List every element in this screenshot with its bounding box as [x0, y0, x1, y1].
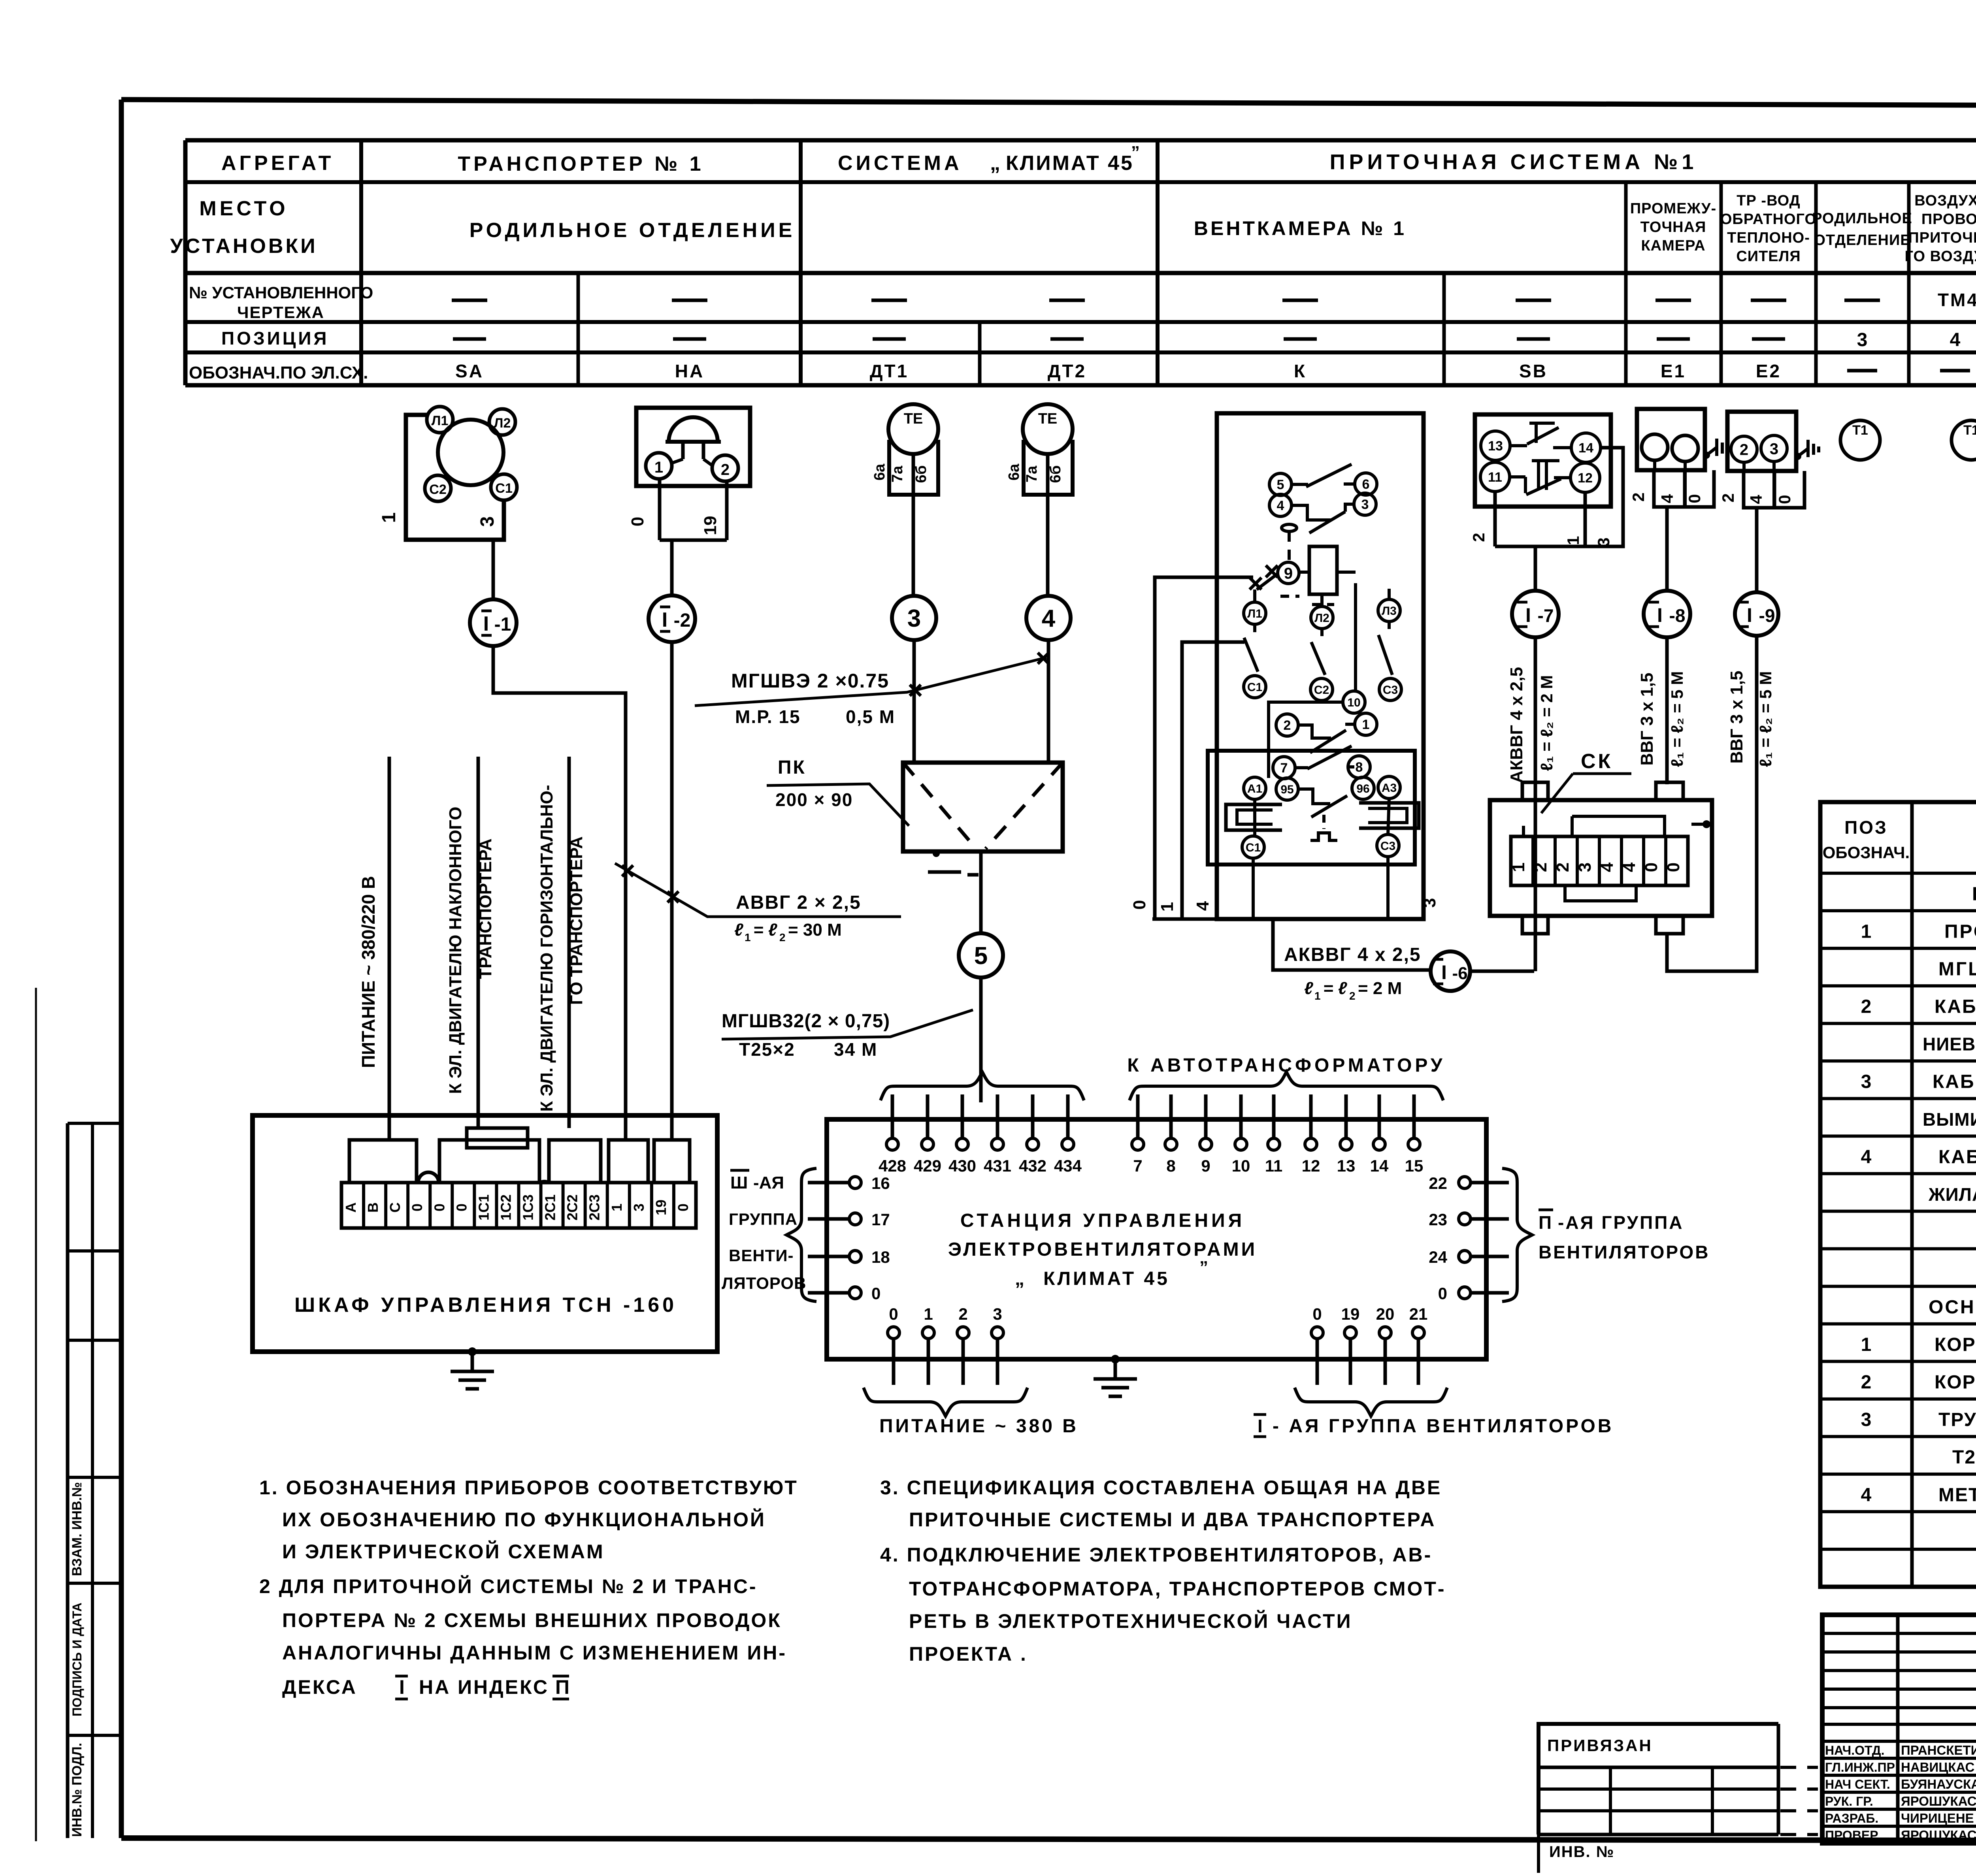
cabinet upper connector boxes	[349, 1128, 690, 1183]
svg-text:-9: -9	[1759, 605, 1775, 626]
svg-text:-АЯ: -АЯ	[753, 1173, 784, 1192]
svg-text:ПИТАНИЕ ~ 380/220 В: ПИТАНИЕ ~ 380/220 В	[358, 876, 379, 1068]
svg-text:2: 2	[1349, 990, 1356, 1002]
svg-text:ПОРТЕРА № 2 СХЕМЫ ВНЕШН: ПОРТЕРА № 2 СХЕМЫ ВНЕШНИХ ПРОВОДОК	[282, 1609, 782, 1631]
svg-text:0: 0	[889, 1305, 898, 1323]
wire И-1 to cabinet	[493, 646, 626, 1140]
svg-text:3: 3	[1420, 898, 1439, 908]
К contact 2-1	[1276, 713, 1377, 753]
pull box ПК 200x90	[903, 763, 1063, 875]
station left terminals 16 17 18 0	[808, 1174, 890, 1303]
svg-text:КЛИМАТ 45: КЛИМАТ 45	[1006, 152, 1134, 175]
brace and label П-АЯ ГРУППА ВЕНТИЛЯТОРОВ	[1502, 1168, 1710, 1302]
svg-text:0: 0	[453, 1204, 469, 1211]
svg-text:0: 0	[675, 1204, 691, 1211]
svg-text:РЕТЬ В ЭЛЕКТРОТЕХНИЧЕСКОЙ: РЕТЬ В ЭЛЕКТРОТЕХНИЧЕСКОЙ ЧАСТИ	[909, 1610, 1352, 1632]
svg-text:3. СПЕЦИФИКАЦИЯ СОСТАВЛЕНА: 3. СПЕЦИФИКАЦИЯ СОСТАВЛЕНА ОБЩАЯ НА ДВЕ	[880, 1477, 1442, 1499]
note 4	[880, 1544, 1446, 1665]
cabinet ground	[451, 1347, 494, 1389]
К contact 7-8	[1273, 746, 1370, 779]
wire marker 4	[1026, 596, 1071, 763]
svg-text:ПРОМЕЖУ-: ПРОМЕЖУ-	[1630, 200, 1716, 217]
svg-text:Л1: Л1	[1247, 607, 1262, 620]
svg-text:2: 2	[1629, 492, 1648, 501]
SA motor circle	[438, 420, 503, 485]
svg-text:Т25×2: Т25×2	[739, 1039, 795, 1060]
svg-text:ТОТРАНСФОРМАТОРА, ТРАНСПОРТ: ТОТРАНСФОРМАТОРА, ТРАНСПОРТЕРОВ СМОТ-	[909, 1578, 1446, 1600]
svg-text:434: 434	[1054, 1156, 1082, 1175]
svg-text:12: 12	[1578, 471, 1593, 486]
svg-text:3: 3	[631, 1204, 647, 1211]
wire Е1 to И-8	[1665, 507, 1669, 591]
svg-text:18: 18	[871, 1248, 890, 1266]
SA wire label 1	[379, 512, 400, 523]
svg-text:= ℓ: = ℓ	[753, 920, 777, 940]
К contact crosses	[1250, 565, 1278, 590]
svg-text:3: 3	[1361, 497, 1369, 512]
svg-text:2: 2	[1861, 996, 1872, 1017]
svg-text:НА ИНДЕКС: НА ИНДЕКС	[419, 1676, 549, 1698]
station top terminals 7..15	[1132, 1094, 1423, 1175]
svg-text:7а: 7а	[889, 465, 906, 482]
svg-text:19: 19	[1341, 1305, 1360, 1323]
svg-text:3: 3	[1770, 440, 1778, 458]
К contact 5-6	[1269, 464, 1377, 495]
svg-text:0: 0	[1438, 1284, 1447, 1303]
svg-text:ПРИТОЧНАЯ СИСТЕМА №1: ПРИТОЧНАЯ СИСТЕМА №1	[1330, 150, 1698, 174]
svg-text:7: 7	[1280, 761, 1288, 776]
svg-text:34 М: 34 М	[834, 1039, 877, 1060]
cable ВВГ 3x1,5 5М vertical (И-9)	[1667, 636, 1775, 971]
svg-text:0: 0	[1664, 863, 1683, 872]
svg-text:№ УСТАНОВЛЕННОГО: № УСТАНОВЛЕННОГО	[189, 283, 373, 302]
svg-text:1С1: 1С1	[475, 1194, 492, 1221]
station СТАНЦИЯ УПРАВЛЕНИЯ box	[827, 1119, 1486, 1359]
station bottom terminals 0 1 2 3 (supply)	[888, 1305, 1003, 1385]
svg-text:Ш: Ш	[730, 1173, 748, 1192]
svg-text:1: 1	[1158, 902, 1177, 912]
svg-text:РАЗРАБ.: РАЗРАБ.	[1825, 1811, 1878, 1825]
svg-text:ℓ: ℓ	[1304, 979, 1313, 998]
svg-text:ВЗАМ. ИНВ.№: ВЗАМ. ИНВ.№	[70, 1482, 85, 1576]
svg-text:ГО ВОЗДУХА: ГО ВОЗДУХА	[1905, 248, 1976, 265]
svg-text:3: 3	[907, 605, 921, 632]
svg-text:ИХ ОБОЗНАЧЕНИЮ ПО ФУНКЦ: ИХ ОБОЗНАЧЕНИЮ ПО ФУНКЦИОНАЛЬНОЙ	[282, 1508, 766, 1531]
svg-text:23: 23	[1429, 1210, 1447, 1229]
svg-text:19: 19	[701, 516, 720, 535]
svg-text:РОДИЛЬНОЕ ОТДЕЛЕНИЕ: РОДИЛЬНОЕ ОТДЕЛЕНИЕ	[469, 219, 796, 242]
К wire label 3	[1420, 898, 1439, 908]
svg-text:2: 2	[1719, 493, 1737, 502]
svg-text:С2: С2	[1314, 684, 1329, 697]
svg-text:ВЕНТИЛЯТОРОВ: ВЕНТИЛЯТОРОВ	[1539, 1242, 1710, 1262]
label ПК 200x90	[767, 757, 909, 826]
station bottom terminals 0 19 20 21	[1311, 1305, 1427, 1385]
svg-text:Е1: Е1	[1661, 361, 1686, 381]
specification table grid	[1820, 802, 1976, 1587]
svg-text:ВЕНТИ-: ВЕНТИ-	[729, 1246, 794, 1265]
СК label	[1541, 750, 1631, 813]
svg-text:432: 432	[1019, 1156, 1046, 1175]
wire marker 5	[959, 933, 1003, 978]
svg-text:ЧИРИЦЕНЕ: ЧИРИЦЕНЕ	[1901, 1811, 1974, 1825]
SB contact 13-14	[1481, 423, 1601, 462]
svg-text:0: 0	[628, 517, 647, 526]
svg-text:3: 3	[1861, 1409, 1872, 1430]
svg-text:2: 2	[721, 461, 730, 478]
СК mounting tabs	[1522, 782, 1683, 934]
svg-text:ТРАНСПОРТЕРА: ТРАНСПОРТЕРА	[476, 838, 495, 979]
marker И-9	[1735, 592, 1778, 636]
svg-text:А: А	[343, 1202, 359, 1213]
brace К АВТОТРАНСФОРМАТОРУ	[1127, 1055, 1445, 1100]
station ground	[1094, 1355, 1137, 1396]
bind block ПРИВЯЗАН	[1539, 1724, 1818, 1873]
svg-text:МГШВЭ 2 ×0.75: МГШВЭ 2 ×0.75	[731, 670, 889, 692]
svg-text:А1: А1	[1247, 782, 1262, 795]
svg-text:СТАНЦИЯ УПРАВЛЕНИЯ: СТАНЦИЯ УПРАВЛЕНИЯ	[960, 1210, 1245, 1231]
svg-text:ОТДЕЛЕНИЕ: ОТДЕЛЕНИЕ	[1814, 232, 1910, 249]
svg-text:11: 11	[1488, 470, 1502, 485]
svg-text:-1: -1	[494, 614, 511, 635]
svg-text:3: 3	[477, 516, 498, 527]
device НА (bell) box	[636, 408, 750, 486]
СК inner offset plates	[1523, 816, 1710, 901]
К heater right	[1359, 803, 1419, 828]
svg-text:= ℓ: = ℓ	[1323, 979, 1347, 998]
svg-text:УСТАНОВКИ: УСТАНОВКИ	[170, 235, 317, 258]
svg-text:К ЭЛ. ДВИГАТЕЛЮ ГОРИЗОНТАЛЬНО: К ЭЛ. ДВИГАТЕЛЮ ГОРИЗОНТАЛЬНО-	[537, 785, 556, 1111]
svg-text:2: 2	[1469, 533, 1488, 542]
marker И-1	[470, 599, 517, 646]
svg-text:0: 0	[1130, 900, 1149, 910]
wire И-6 to СК	[1470, 970, 1534, 973]
К switch arms to С1 С2 С3	[1244, 624, 1266, 698]
sensor Т1 #2	[1951, 420, 1976, 460]
svg-text:С: С	[387, 1202, 403, 1213]
svg-text:С1: С1	[495, 481, 512, 496]
svg-text:ГРУППА: ГРУППА	[729, 1210, 798, 1228]
svg-text:I: I	[399, 1676, 405, 1698]
svg-text:428: 428	[879, 1156, 906, 1175]
svg-text:СИСТЕМА: СИСТЕМА	[838, 152, 962, 175]
svg-text:1. ОБОЗНАЧЕНИЯ ПРИБОРОВ СО: 1. ОБОЗНАЧЕНИЯ ПРИБОРОВ СООТВЕТСТВУЮТ	[259, 1477, 798, 1499]
svg-text:К ЭЛ. ДВИГАТЕЛЮ НАКЛОННОГО: К ЭЛ. ДВИГАТЕЛЮ НАКЛОННОГО	[446, 806, 465, 1094]
svg-text:”: ”	[1131, 143, 1140, 162]
SA terminal Л1	[427, 407, 453, 433]
svg-text:ПК: ПК	[778, 757, 806, 778]
svg-text:- АЯ ГРУППА ВЕНТИЛЯТОРОВ: - АЯ ГРУППА ВЕНТИЛЯТОРОВ	[1273, 1416, 1614, 1437]
svg-text:= 30 М: = 30 М	[788, 920, 842, 940]
svg-text:КАБЕЛЬ СИЛОВОЙ С АЛЮМИН: КАБЕЛЬ СИЛОВОЙ С АЛЮМИНИЕ-	[1933, 1071, 1976, 1092]
svg-text:0: 0	[1775, 495, 1794, 504]
СК terminal strip	[1509, 836, 1688, 885]
svg-text:4: 4	[1861, 1484, 1872, 1505]
К cable exit to И-6	[1273, 919, 1431, 970]
wire SA to И-1	[492, 540, 495, 599]
svg-text:П: П	[555, 1676, 569, 1698]
svg-text:4. ПОДКЛЮЧЕНИЕ ЭЛЕКТРОВЕН: 4. ПОДКЛЮЧЕНИЕ ЭЛЕКТРОВЕНТИЛЯТОРОВ, АВ-	[880, 1544, 1432, 1566]
svg-text:4: 4	[1747, 495, 1765, 504]
svg-text:КАБЕЛЬ КОНТРОЛЬНЫЙ С: КАБЕЛЬ КОНТРОЛЬНЫЙ С АЛЮМИ-	[1935, 996, 1976, 1017]
svg-text:ℓ: ℓ	[734, 920, 743, 940]
svg-text:I: I	[1657, 604, 1663, 626]
svg-text:I: I	[483, 612, 489, 635]
svg-text:ТРУБА СТАЛЬНАЯ ЭЛЕКТР: ТРУБА СТАЛЬНАЯ ЭЛЕКТРОСВАРНАЯ	[1938, 1409, 1976, 1430]
К contact 95-96 with reset	[1276, 777, 1374, 840]
left margin stamp strip	[68, 1123, 121, 1838]
sensor Т1 #1	[1840, 420, 1880, 460]
svg-text:ПРОВОД: ПРОВОД	[1921, 211, 1976, 228]
svg-text:5: 5	[974, 942, 988, 970]
svg-text:1: 1	[1861, 1334, 1872, 1355]
cable label АКВВГ 4х2,5 2М	[1284, 944, 1421, 1002]
svg-text:24: 24	[1429, 1248, 1447, 1266]
svg-text:С2: С2	[429, 482, 446, 497]
station right terminals 22 23 24 0	[1429, 1174, 1509, 1303]
svg-text:4: 4	[1042, 605, 1056, 632]
svg-text:Л1: Л1	[432, 413, 449, 428]
svg-text:ПРОВОД ЭКРАНИРОВАННЫЙ: ПРОВОД ЭКРАНИРОВАННЫЙ	[1944, 920, 1976, 942]
svg-text:0: 0	[871, 1284, 881, 1303]
note 3	[880, 1477, 1442, 1531]
svg-text:ЖИЛАМИ ВВГ 3 × 1,5: ЖИЛАМИ ВВГ 3 × 1,5 ГОСТ 16442-70	[1928, 1184, 1976, 1205]
svg-text:4: 4	[1620, 862, 1639, 872]
svg-text:-АЯ ГРУППА: -АЯ ГРУППА	[1558, 1212, 1684, 1233]
svg-text:429: 429	[914, 1156, 941, 1175]
location table texts	[170, 143, 1976, 382]
svg-text:БУЯНАУСКАС: БУЯНАУСКАС	[1901, 1777, 1976, 1791]
svg-text:3: 3	[1594, 537, 1613, 546]
svg-text:ДТ1: ДТ1	[870, 361, 909, 381]
svg-text:МЕТАЛЛОРУКАВ Р3- АЛ- Х: МЕТАЛЛОРУКАВ Р3- АЛ- Х Дь= 15 ММ	[1938, 1484, 1976, 1505]
sensor ТЕ2	[1006, 404, 1073, 596]
svg-text:„: „	[990, 152, 1000, 175]
station title	[948, 1210, 1257, 1289]
svg-text:ЭЛЕКТРОВЕНТИЛЯТОРАМИ: ЭЛЕКТРОВЕНТИЛЯТОРАМИ	[948, 1239, 1257, 1260]
svg-text:ГЛ.ИНЖ.ПР: ГЛ.ИНЖ.ПР	[1825, 1760, 1895, 1774]
svg-text:2: 2	[779, 931, 786, 944]
svg-text:SB: SB	[1519, 361, 1548, 381]
svg-text:95: 95	[1280, 783, 1293, 796]
svg-text:Л2: Л2	[1314, 612, 1329, 625]
svg-text:ЯРОШУКАС: ЯРОШУКАС	[1901, 1828, 1976, 1842]
svg-text:2С1: 2С1	[542, 1194, 558, 1221]
svg-text:ЧЕРТЕЖА: ЧЕРТЕЖА	[237, 303, 324, 322]
cabinet terminal strip	[341, 1183, 696, 1228]
svg-text:В: В	[365, 1202, 381, 1213]
svg-text:9: 9	[1201, 1156, 1210, 1175]
svg-text:Т25 × 2,0 ГОСТ 10704: Т25 × 2,0 ГОСТ 10704-76	[1952, 1447, 1976, 1468]
svg-text:0: 0	[409, 1204, 425, 1211]
svg-text:ТЕПЛОНО-: ТЕПЛОНО-	[1727, 230, 1810, 246]
svg-text:7: 7	[1133, 1156, 1142, 1175]
svg-text:ШКАФ УПРАВЛЕНИЯ ТСН -160: ШКАФ УПРАВЛЕНИЯ ТСН -160	[294, 1294, 677, 1317]
К contact 4-3	[1269, 493, 1376, 533]
cable АКВВГ 4x2,5 2М vertical	[1507, 637, 1556, 971]
svg-text:АКВВГ 4 х 2,5: АКВВГ 4 х 2,5	[1284, 944, 1421, 965]
note 1	[259, 1477, 798, 1563]
svg-text:0: 0	[1642, 863, 1661, 872]
spec rows cables	[1861, 883, 1976, 1205]
К thermal relay sub-box	[1208, 751, 1415, 865]
svg-text:ПРИТОЧНО-: ПРИТОЧНО-	[1908, 230, 1976, 246]
svg-text:3: 3	[993, 1305, 1002, 1323]
svg-text:1: 1	[745, 931, 751, 944]
svg-text:2: 2	[958, 1305, 967, 1323]
svg-text:МГШВ Э 2 × 0,75: МГШВ Э 2 × 0,75	[1938, 959, 1976, 980]
svg-text:4: 4	[1658, 494, 1676, 503]
device SA (packet switch) box	[406, 415, 504, 540]
marker И-2	[649, 595, 695, 642]
svg-text:2С2: 2С2	[564, 1194, 581, 1221]
brace ПИТАНИЕ ~380 В	[864, 1388, 1079, 1437]
svg-text:12: 12	[1302, 1156, 1320, 1175]
svg-text:Т1: Т1	[1852, 423, 1868, 438]
brace and riser to marker 5	[881, 1072, 1084, 1102]
svg-text:ВВГ 3 х 1,5: ВВГ 3 х 1,5	[1727, 671, 1746, 763]
svg-text:К АВТОТРАНСФОРМАТОРУ: К АВТОТРАНСФОРМАТОРУ	[1127, 1055, 1445, 1076]
cable label МГШВЭ 2x0.75 М.Р.15 0,5М	[695, 653, 1049, 727]
cable ВВГ 3x1,5 5М vertical (И-8)	[1637, 637, 1686, 784]
svg-text:ПРАНСКЕТИС: ПРАНСКЕТИС	[1901, 1743, 1976, 1757]
svg-text:1: 1	[1564, 536, 1582, 545]
svg-text:6б: 6б	[913, 465, 930, 483]
svg-text:9: 9	[1284, 565, 1293, 582]
svg-text:13: 13	[1337, 1156, 1356, 1175]
svg-text:96: 96	[1356, 782, 1369, 795]
cable label МГШВ32(2x0,75) Т25х2 34М	[722, 1010, 973, 1060]
svg-text:АНАЛОГИЧНЫ ДАННЫМ С ИЗМЕ: АНАЛОГИЧНЫ ДАННЫМ С ИЗМЕНЕНИЕМ ИН-	[282, 1642, 787, 1664]
wire marker 3	[892, 596, 936, 763]
svg-text:ТЕ: ТЕ	[904, 411, 923, 427]
svg-text:1: 1	[379, 512, 400, 523]
svg-text:6а: 6а	[871, 463, 888, 480]
svg-text:КЛИМАТ 45: КЛИМАТ 45	[1043, 1268, 1170, 1289]
svg-text:ИНВ. №: ИНВ. №	[1549, 1843, 1614, 1861]
svg-text:10: 10	[1232, 1156, 1250, 1175]
svg-text:1: 1	[1314, 990, 1321, 1002]
svg-text:СК: СК	[1581, 750, 1613, 773]
svg-text:1С3: 1С3	[520, 1194, 536, 1221]
svg-text:ПРОВЕР: ПРОВЕР	[1825, 1828, 1878, 1842]
НА wire label 0	[628, 517, 647, 526]
svg-text:I: I	[662, 608, 667, 631]
svg-text:СИТЕЛЯ: СИТЕЛЯ	[1736, 248, 1801, 265]
cabinet feeder wires with labels	[358, 757, 389, 1140]
НА bell dome	[666, 417, 721, 459]
svg-text:1: 1	[654, 459, 663, 476]
svg-text:РУК. ГР.: РУК. ГР.	[1825, 1794, 1873, 1808]
svg-text:ПОЗИЦИЯ: ПОЗИЦИЯ	[221, 328, 329, 348]
svg-text:ПОЗ: ПОЗ	[1844, 817, 1888, 838]
svg-text:Л2: Л2	[494, 416, 511, 431]
svg-text:ГО ТРАНСПОРТЕРА: ГО ТРАНСПОРТЕРА	[567, 836, 586, 1005]
svg-text:200 × 90: 200 × 90	[775, 789, 853, 810]
svg-text:А3: А3	[1382, 782, 1397, 795]
svg-text:4: 4	[1597, 862, 1617, 872]
svg-text:ОБРАТНОГО: ОБРАТНОГО	[1720, 211, 1817, 228]
К relay 9	[1278, 546, 1356, 605]
note 2	[259, 1575, 787, 1699]
svg-text:8: 8	[1356, 760, 1363, 775]
svg-text:РОДИЛЬНОЕ: РОДИЛЬНОЕ	[1812, 210, 1912, 227]
svg-text:430: 430	[948, 1156, 976, 1175]
svg-text:МГШВ32(2 × 0,75): МГШВ32(2 × 0,75)	[722, 1011, 890, 1032]
title block frame	[1822, 1615, 1976, 1843]
svg-text:SA: SA	[455, 361, 484, 381]
К wire label 4	[1193, 901, 1212, 911]
SA terminal Л2	[489, 409, 515, 435]
svg-text:I: I	[1525, 604, 1531, 626]
svg-text:= 2 М: = 2 М	[1358, 979, 1402, 998]
svg-text:19: 19	[653, 1200, 669, 1215]
svg-text:ℓ₁ = ℓ₂ = 5 М: ℓ₁ = ℓ₂ = 5 М	[1668, 671, 1686, 767]
svg-text:НА: НА	[675, 361, 704, 381]
svg-text:”: ”	[1199, 1258, 1208, 1277]
svg-text:431: 431	[984, 1156, 1011, 1175]
svg-text:2: 2	[1861, 1372, 1872, 1393]
svg-text:С3: С3	[1383, 684, 1398, 697]
svg-text:АВВГ 2 × 2,5: АВВГ 2 × 2,5	[736, 892, 861, 913]
cabinet ШКАФ УПРАВЛЕНИЯ ТСН-160 box	[253, 1115, 717, 1352]
svg-text:1: 1	[1509, 863, 1528, 872]
svg-text:ЯРОШУКАС: ЯРОШУКАС	[1901, 1794, 1976, 1808]
Е1 ground	[1703, 439, 1727, 459]
К terminals С1 С3 bottom	[1242, 834, 1399, 858]
svg-text:МЕСТО: МЕСТО	[199, 197, 288, 220]
svg-text:АКВВГ 4 х 2,5: АКВВГ 4 х 2,5	[1507, 667, 1526, 783]
К heater left	[1226, 804, 1282, 830]
svg-text:1С2: 1С2	[498, 1194, 514, 1221]
svg-text:6а: 6а	[1006, 463, 1022, 480]
svg-text:ДТ2: ДТ2	[1048, 361, 1086, 381]
svg-text:ℓ₁ = ℓ₂ = 2 М: ℓ₁ = ℓ₂ = 2 М	[1537, 675, 1556, 771]
svg-text:ТОЧНАЯ: ТОЧНАЯ	[1640, 219, 1706, 235]
svg-text:ТМ4 - 142-75: ТМ4 - 142-75	[1938, 290, 1976, 310]
К external wire 0	[1130, 577, 1253, 919]
svg-text:НАЧ СЕКТ.: НАЧ СЕКТ.	[1825, 1777, 1890, 1791]
svg-text:ОСНОВНЫЕ МОНТАЖНЫЕ МАТЕ: ОСНОВНЫЕ МОНТАЖНЫЕ МАТЕРИАЛЫ	[1929, 1297, 1976, 1318]
wire ПК to marker 5	[979, 851, 983, 933]
svg-text:1: 1	[1861, 921, 1872, 942]
svg-text:2: 2	[1284, 718, 1291, 733]
svg-text:КОРОБКА СОЕДИНИТЕЛЬНАЯ: КОРОБКА СОЕДИНИТЕЛЬНАЯ КСК - 8	[1935, 1334, 1976, 1355]
svg-text:ПРИТОЧНЫЕ СИСТЕМЫ И ДВА: ПРИТОЧНЫЕ СИСТЕМЫ И ДВА ТРАНСПОРТЕРА	[909, 1509, 1436, 1531]
svg-text:КАБЕЛЬ СИЛОВОЙ С МЕД: КАБЕЛЬ СИЛОВОЙ С МЕДНЫМИ	[1938, 1146, 1976, 1168]
НА wire label 19	[701, 516, 720, 535]
svg-text:ВОЗДУХО-: ВОЗДУХО-	[1914, 192, 1976, 209]
SA wire label 3	[477, 516, 498, 527]
svg-text:К: К	[1294, 361, 1307, 381]
cable label АВВГ 2x2,5 30М	[615, 863, 901, 944]
svg-text:ОБОЗНАЧ.ПО ЭЛ.СХ.: ОБОЗНАЧ.ПО ЭЛ.СХ.	[189, 363, 368, 382]
SA terminal С2	[425, 475, 451, 501]
location table grid	[185, 140, 1976, 385]
svg-text:ДЕКСА: ДЕКСА	[282, 1676, 357, 1698]
Е2 ground	[1794, 440, 1819, 460]
station top terminals 428..434	[879, 1094, 1082, 1175]
svg-text:КАМЕРА: КАМЕРА	[1641, 237, 1705, 254]
svg-text:С1: С1	[1246, 841, 1261, 854]
svg-text:22: 22	[1429, 1174, 1447, 1192]
НА terminal 1	[646, 453, 683, 479]
svg-text:14: 14	[1578, 441, 1593, 456]
device SB box	[1475, 414, 1611, 507]
junction box СК	[1490, 800, 1712, 916]
svg-text:1: 1	[1362, 717, 1370, 732]
svg-text:I: I	[1747, 604, 1752, 626]
